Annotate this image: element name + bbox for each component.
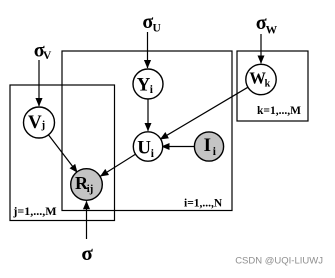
- svg-text:ij: ij: [87, 184, 93, 195]
- svg-text:Y: Y: [137, 74, 151, 95]
- svg-text:σ: σ: [81, 241, 93, 265]
- svg-text:W: W: [266, 24, 278, 36]
- svg-text:CSDN @UQI-LIUWJ: CSDN @UQI-LIUWJ: [235, 256, 323, 267]
- svg-text:k=1,...,M: k=1,...,M: [257, 105, 301, 117]
- svg-text:k: k: [265, 79, 271, 90]
- svg-text:V: V: [43, 50, 52, 62]
- svg-text:U: U: [153, 22, 162, 34]
- svg-text:i=1,...,N: i=1,...,N: [184, 198, 223, 210]
- svg-text:U: U: [137, 137, 151, 158]
- svg-text:j: j: [41, 119, 46, 131]
- svg-text:I: I: [204, 135, 211, 156]
- svg-text:V: V: [28, 112, 42, 133]
- svg-text:j=1,...,M: j=1,...,M: [12, 204, 56, 218]
